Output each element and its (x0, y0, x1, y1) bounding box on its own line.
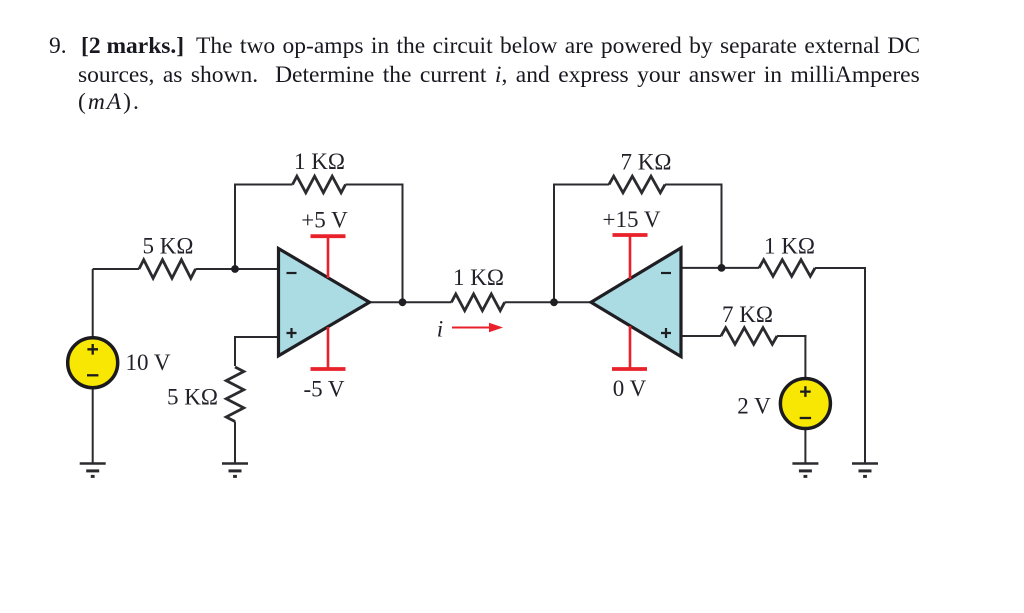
wire: U2 inverting input line to 1K resistor (681, 267, 759, 269)
wire: U2 non-inverting input to 7K resistor (681, 335, 721, 337)
wire: 10V source bottom lead to ground (92, 388, 94, 463)
wire: input line from source to 5K resistor (93, 268, 139, 270)
svg-text:-5 V: -5 V (303, 376, 344, 401)
wire: from 5K resistor to inverting input of U1 (196, 268, 279, 270)
node: U2 inverting input junction (718, 264, 726, 272)
wire: left feedback vertical (234, 185, 236, 270)
svg-text:5 KΩ: 5 KΩ (143, 234, 194, 259)
wire: 5K vertical resistor to ground (234, 422, 236, 464)
ground (below 2 V source) (792, 464, 818, 477)
svg-text:1 KΩ: 1 KΩ (764, 234, 815, 259)
wire: 2V source bottom lead to ground (804, 428, 806, 463)
resistor 5 KΩ vertical (to ground) (226, 367, 244, 422)
U1 inverting input symbol (−) (287, 272, 297, 274)
wire: non-inverting input of U1 (234, 336, 278, 338)
current arrow i (452, 323, 503, 332)
U2 inverting input symbol (−) (661, 272, 671, 274)
ground (right rail) (852, 464, 878, 477)
svg-text:7 KΩ: 7 KΩ (722, 302, 773, 327)
resistor 1 KΩ right (759, 260, 815, 277)
svg-text:0 V: 0 V (613, 376, 647, 401)
wire: left feedback top left segment (234, 184, 293, 186)
0V supply rail symbol (U2) (612, 367, 647, 371)
+15V supply rail symbol (U2) (613, 235, 648, 368)
wire: right feedback top left segment (553, 184, 609, 186)
resistor 7 KΩ feedback (right op-amp) (609, 176, 665, 193)
wire: U1 output to mid 1K resistor (368, 301, 451, 303)
-5V supply rail symbol (U1) (311, 367, 346, 371)
svg-text:+15 V: +15 V (603, 207, 661, 232)
node: U2 input junction (550, 298, 558, 306)
wire: right feedback top right segment (665, 184, 723, 186)
wire: left feedback top right segment (346, 184, 404, 186)
resistor 1 KΩ middle (current i) (451, 294, 504, 311)
wire: 7K resistor to 2V source corner (777, 335, 806, 337)
resistor 1 KΩ feedback (left op-amp) (293, 176, 346, 193)
svg-text:2 V: 2 V (737, 394, 771, 419)
voltage source 10 V (68, 338, 118, 388)
svg-text:+5 V: +5 V (301, 208, 348, 233)
voltage source 2 V (780, 379, 830, 429)
node: U1 output junction (399, 298, 407, 306)
wire: from + input corner down to 5K vertical resistor (234, 336, 236, 366)
node: U1 inverting input junction (231, 265, 239, 273)
svg-text:1 KΩ: 1 KΩ (453, 265, 504, 290)
resistor 7 KΩ right (to 2V source) (721, 328, 777, 345)
U2 non-inverting input symbol (+) (661, 328, 671, 338)
ground (below 10 V source) (80, 464, 106, 477)
ground (below 5K vertical resistor) (222, 464, 248, 477)
+5V supply rail symbol (U1) (311, 236, 346, 368)
op-amp U2 (right, output to left) (591, 248, 681, 357)
wire: down to 2V source (804, 335, 806, 379)
svg-text:i: i (437, 317, 443, 342)
U1 non-inverting input symbol (+) (287, 328, 297, 338)
resistor 5 KΩ input (left) (139, 260, 196, 279)
wire: mid 1K resistor to U2 apex (505, 301, 592, 303)
svg-text:1 KΩ: 1 KΩ (294, 149, 345, 174)
svg-text:5 KΩ: 5 KΩ (167, 385, 218, 410)
problem statement line 2 (78, 64, 920, 88)
wire: right 1K resistor to right rail corner (815, 267, 866, 269)
problem statement line 1 (49, 35, 67, 59)
op-amp U1 (left, output to right) (279, 249, 370, 356)
wire: right rail vertical to ground (864, 267, 866, 463)
svg-text:7 KΩ: 7 KΩ (621, 150, 672, 175)
wire: 10V source top lead up to input line (92, 269, 94, 338)
wire: right feedback right vertical down to inverting node (721, 185, 723, 268)
wire: left feedback right vertical down to output node (402, 185, 404, 303)
problem statement line 3 (78, 91, 141, 115)
wire: right feedback left vertical (553, 185, 555, 303)
svg-text:10 V: 10 V (126, 350, 171, 375)
